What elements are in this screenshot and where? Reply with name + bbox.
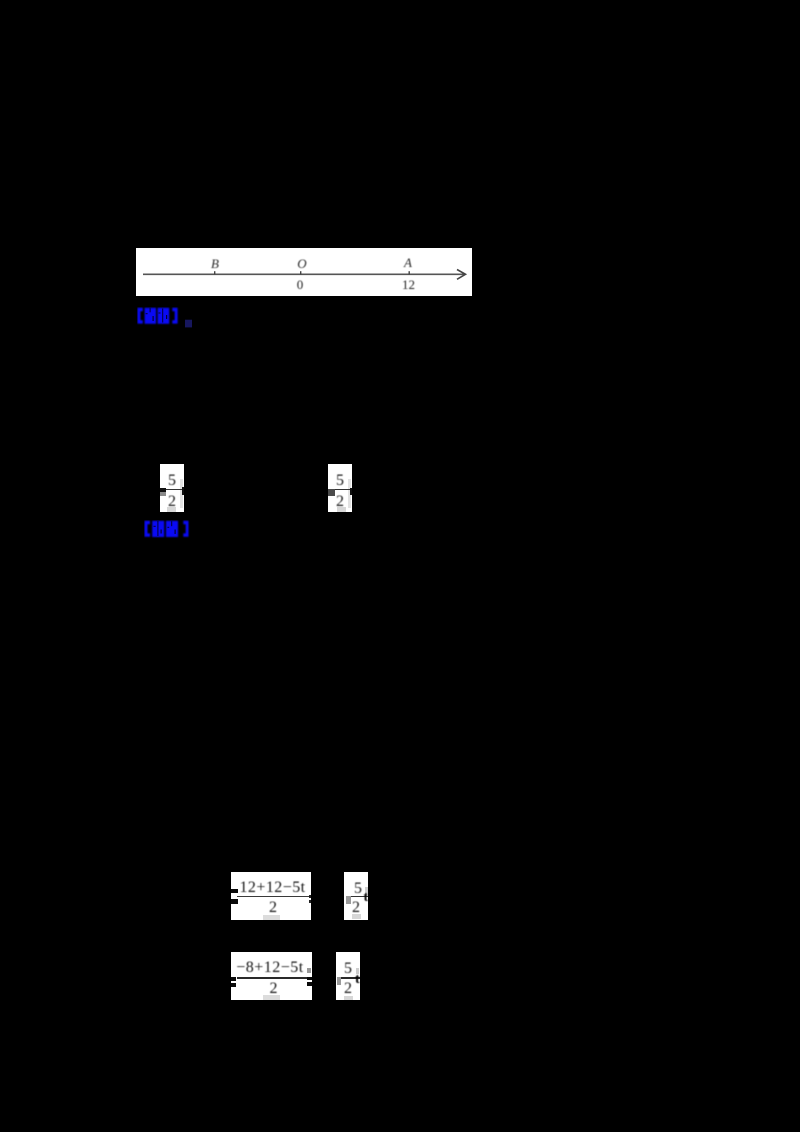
numerator 5 [160, 473, 184, 489]
number 0 [292, 278, 308, 291]
number 12 [400, 278, 417, 291]
light gray artifacts [180, 479, 183, 508]
formula image: 5/2 after first equation [344, 872, 368, 920]
blue section label 2 (【解答】 rendered as glyph blobs) [144, 520, 196, 542]
label O [294, 257, 310, 270]
equals sign at right edge [307, 977, 312, 981]
black notch right [350, 488, 352, 495]
denominator 2 [328, 494, 352, 510]
bracket 】 [183, 521, 188, 537]
fraction bar [346, 896, 368, 897]
bracket 【 [145, 521, 151, 537]
hanzi 解 [152, 521, 164, 537]
fraction bar [338, 977, 360, 979]
texture slits in hanzi blobs [154, 521, 176, 536]
label B [207, 257, 223, 270]
fraction bar [332, 489, 352, 490]
numerator 5 [328, 473, 352, 489]
denominator 2 [231, 900, 315, 916]
gray notch left [337, 977, 341, 985]
numerator 5 [346, 881, 370, 897]
fraction bar [164, 489, 184, 490]
equals sign clipped at left edge [231, 889, 238, 894]
number line axis with arrow and ticks [136, 248, 472, 296]
formula image: first 5/2 fraction [160, 464, 184, 512]
fraction bar [237, 977, 312, 979]
bottom gray artifact [263, 915, 280, 920]
gray notch left lower [160, 492, 166, 497]
denominator 2 [344, 900, 368, 916]
hanzi 答 [166, 521, 178, 537]
hanzi 分 [145, 308, 156, 324]
trailing dark blue mark [185, 320, 192, 328]
denominator 2 [231, 981, 316, 997]
denominator 2 [160, 494, 184, 510]
formula image: (12+12-5t)/2 [231, 872, 311, 920]
blue section label 1 (【分析】 rendered as glyph blobs) [137, 307, 197, 331]
figure: number line image (white background box) [136, 248, 472, 296]
gray notch left [346, 896, 351, 904]
gray block right edge [307, 968, 312, 973]
letter t overlapping right edge [364, 891, 376, 905]
formula image: (-8+12-5t)/2 [231, 952, 312, 1000]
tick point A [409, 271, 410, 274]
numerator 12+12-5t [231, 880, 314, 896]
black notch left [160, 488, 166, 493]
tick point B [214, 271, 215, 274]
letter t overlapping right edge [355, 973, 367, 987]
denominator 2 [336, 981, 360, 997]
bracket 【 [138, 308, 143, 324]
axis line [143, 273, 464, 275]
label A [400, 256, 416, 269]
texture slits in hanzi blobs [146, 308, 168, 323]
numerator 5 [336, 961, 360, 977]
equals sign clipped at right edge [309, 895, 311, 898]
arrow head [457, 270, 466, 280]
equals sign clipped at left edge [231, 977, 236, 981]
numerator -8+12-5t [231, 960, 309, 976]
fraction bar [237, 896, 311, 898]
formula image: 5/2 after second equation [336, 952, 360, 1000]
bracket 】 [172, 308, 177, 324]
dark gray notch left [328, 489, 335, 496]
tick point O [300, 271, 301, 274]
hanzi 析 [158, 308, 170, 324]
formula image: second 5/2 fraction [328, 464, 352, 512]
black notch right [182, 487, 185, 495]
